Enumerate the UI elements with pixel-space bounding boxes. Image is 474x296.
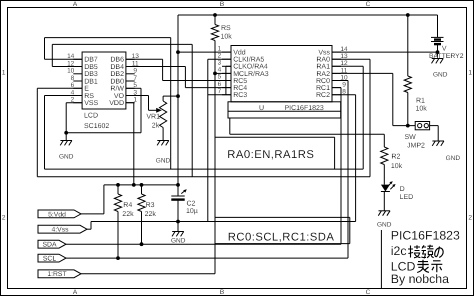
svg-text:RC1: RC1 [316, 85, 330, 92]
wire MCLR row [215, 72, 231, 74]
title i2c setsuzoku no [391, 244, 443, 258]
wire LCD VSS [66, 103, 82, 133]
svg-text:Vss: Vss [318, 50, 330, 57]
wire 5:Vdd riser [81, 185, 104, 214]
wire RA1 loop right [332, 66, 363, 169]
ground battery [432, 59, 448, 79]
junction rail/LCDVDD [132, 183, 136, 187]
svg-text:RA2: RA2 [316, 71, 330, 78]
svg-text:V: V [442, 46, 447, 53]
wire RA4 to RC3 row [208, 66, 231, 94]
ground JMP2 [432, 141, 460, 162]
battery BATTERY2 [429, 15, 464, 60]
svg-text:DB7: DB7 [84, 57, 98, 64]
resistor R3 22k [138, 185, 156, 244]
svg-text:7: 7 [218, 88, 222, 95]
svg-text:DB2: DB2 [110, 71, 124, 78]
svg-text:LED: LED [400, 194, 414, 201]
svg-text:GND: GND [156, 157, 171, 164]
svg-text:10k: 10k [391, 162, 403, 170]
svg-text:Vdd: Vdd [233, 49, 246, 57]
svg-text:2: 2 [218, 52, 222, 59]
svg-text:GND: GND [377, 221, 392, 228]
junction C2/gnd line [176, 220, 180, 224]
svg-text:DB6: DB6 [110, 57, 124, 64]
junction Vdd/R1 [406, 13, 410, 17]
svg-text:VSS: VSS [84, 100, 98, 107]
wire VO to VR1 wiper [126, 96, 162, 113]
title LCD hyouji [391, 259, 443, 273]
svg-text:DB1: DB1 [84, 78, 98, 85]
wire Vdd bottom rail [104, 184, 178, 186]
capacitor C2 10u [171, 185, 198, 222]
svg-text:R3: R3 [146, 202, 155, 209]
resistor R4 22k [114, 185, 134, 258]
connector SCL [38, 254, 66, 262]
wire DB4 to RC4 [126, 67, 231, 88]
wire DB5 left [52, 44, 82, 66]
svg-text:CLKI/RA5: CLKI/RA5 [233, 56, 264, 64]
LCD module SC1602 [67, 52, 139, 130]
svg-text:RC4: RC4 [233, 85, 247, 92]
junction rail/main [176, 183, 180, 187]
svg-text:By nobcha: By nobcha [391, 272, 449, 286]
svg-text:10: 10 [67, 68, 75, 75]
svg-text:CLKO/RA4: CLKO/RA4 [233, 63, 268, 71]
svg-text:GND: GND [59, 153, 74, 160]
junction SCL/R4 [116, 256, 120, 260]
svg-text:SDA: SDA [43, 242, 57, 249]
svg-text:C: C [366, 1, 371, 8]
junction battery/Vss [436, 50, 440, 54]
title By nobcha [391, 272, 449, 286]
svg-text:RC5: RC5 [233, 78, 247, 85]
connector 1:RST [38, 270, 81, 278]
junction rail/R3 [140, 183, 144, 187]
svg-text:C2: C2 [187, 201, 196, 208]
svg-text:4: 4 [218, 67, 222, 74]
title PIC16F1823 [391, 229, 460, 243]
svg-text:1: 1 [2, 70, 6, 77]
wire 4:Vss jog [87, 222, 91, 230]
svg-text:D: D [400, 186, 405, 193]
svg-text:9: 9 [342, 82, 346, 89]
wire Vdd top rail [178, 14, 438, 16]
svg-text:4:Vss: 4:Vss [52, 227, 70, 234]
svg-text:R1: R1 [416, 98, 425, 105]
svg-text:RC3: RC3 [233, 92, 247, 99]
junction Vdd/RS [213, 13, 217, 17]
wire MCLR to 1:RST vertical [214, 73, 216, 273]
svg-text:SW: SW [405, 134, 417, 141]
svg-text:5:Vdd: 5:Vdd [48, 211, 66, 218]
LED D [381, 181, 413, 201]
svg-text:RA0:EN,RA1RS: RA0:EN,RA1RS [227, 149, 314, 161]
svg-text:22k: 22k [145, 210, 157, 218]
jumper SW JMP2 [393, 122, 438, 150]
wire SDA to RC1 [66, 88, 341, 245]
wire LED line [230, 118, 384, 134]
wire DB7 left [45, 38, 83, 60]
wire E to LCD [37, 88, 82, 176]
junction Vdd/pin1 [176, 50, 180, 54]
wire 1:RST to MCLR [81, 273, 215, 275]
svg-text:PIC16F1823: PIC16F1823 [391, 229, 460, 243]
wire DB6 to RC5 [126, 59, 231, 80]
svg-text:C: C [366, 289, 371, 296]
svg-text:VO: VO [114, 93, 125, 100]
wire LCD VDD down [126, 103, 134, 185]
svg-text:8: 8 [71, 75, 75, 82]
svg-text:MCLR/RA3: MCLR/RA3 [233, 70, 269, 78]
svg-text:GND: GND [171, 238, 186, 245]
svg-text:B: B [220, 1, 224, 8]
svg-text:A: A [73, 289, 78, 296]
connector SDA [38, 240, 66, 248]
comment box RC0 [215, 217, 350, 243]
svg-text:DB0: DB0 [110, 78, 124, 85]
wire Vdd vertical rail x=178 [177, 15, 179, 185]
svg-text:10k: 10k [221, 33, 233, 41]
svg-text:6: 6 [218, 81, 222, 88]
svg-text:B: B [220, 289, 224, 296]
resistor RS 10k [211, 15, 232, 73]
svg-text:1: 1 [468, 70, 472, 77]
svg-text:7: 7 [133, 75, 137, 82]
junction VSS/RW [64, 131, 68, 135]
svg-text:R4: R4 [123, 202, 132, 209]
svg-text:DB4: DB4 [110, 64, 124, 71]
wire RA1-RS bottom run [45, 168, 364, 170]
wire RA0 loop right [332, 59, 370, 177]
ground LED [377, 192, 392, 229]
svg-text:U: U [259, 105, 264, 112]
wire PIC Vss to battery [332, 51, 438, 53]
svg-text:SC1602: SC1602 [84, 123, 109, 130]
wire SCL to RC0 [66, 81, 348, 259]
svg-text:PIC16F1823: PIC16F1823 [285, 105, 324, 112]
title block border [380, 230, 382, 289]
junction RS/MCLR [213, 72, 217, 76]
wire LCD R/W to gnd [66, 88, 141, 133]
label RA0:EN,RA1RS [227, 149, 314, 161]
svg-text:3: 3 [218, 60, 222, 67]
svg-text:2: 2 [2, 215, 6, 222]
connector 4:Vss [38, 225, 87, 233]
junction SDA/R3 [140, 242, 144, 246]
ground VR1 [156, 141, 171, 165]
svg-text:R/W: R/W [110, 85, 124, 93]
ground LCD [59, 133, 74, 161]
wire PIC pin1 Vdd [178, 51, 231, 53]
wire DB7 top run [45, 38, 171, 170]
microcontroller U PIC16F1823 [218, 45, 348, 118]
wire RA2 to JMP2 [332, 73, 393, 125]
svg-text:22k: 22k [122, 210, 134, 218]
svg-text:i2c: i2c [391, 244, 407, 258]
svg-text:R2: R2 [391, 153, 400, 160]
potentiometer VR1 2k [146, 96, 178, 140]
svg-text:DB3: DB3 [84, 71, 98, 78]
wire RS to LCD [45, 96, 83, 170]
svg-text:E: E [84, 86, 89, 93]
svg-text:RA1: RA1 [316, 64, 330, 71]
svg-text:A: A [73, 1, 78, 8]
svg-text:2: 2 [468, 215, 472, 222]
svg-text:RC0: RC0 [316, 78, 330, 85]
wire RA0-E bottom run [37, 176, 370, 178]
svg-text:JMP2: JMP2 [407, 143, 425, 150]
label RC0:SCL,RC1:SDA [228, 231, 335, 243]
svg-text:DB5: DB5 [84, 64, 98, 71]
svg-text:GND: GND [446, 155, 461, 162]
svg-text:RC2: RC2 [316, 92, 330, 99]
svg-text:10k: 10k [416, 104, 428, 112]
svg-text:1: 1 [133, 97, 137, 104]
ground C2 [171, 222, 186, 245]
wire DB5 top run [52, 44, 192, 176]
svg-text:RC0:SCL,RC1:SDA: RC0:SCL,RC1:SDA [228, 231, 335, 243]
junction rail/R4 [116, 183, 120, 187]
svg-text:LCD: LCD [84, 113, 98, 120]
svg-text:5: 5 [218, 74, 222, 81]
svg-text:1:RST: 1:RST [47, 271, 66, 278]
comment box RA0 [215, 137, 335, 169]
svg-text:RA0: RA0 [316, 57, 330, 64]
svg-text:SCL: SCL [43, 256, 56, 263]
junction R1/JMP2 [406, 124, 410, 128]
connector 5:Vdd [38, 210, 81, 218]
svg-text:GND: GND [433, 71, 448, 78]
wire RA5 down [208, 59, 231, 221]
junction VR1/Vdd [176, 94, 180, 98]
svg-text:10µ: 10µ [186, 208, 198, 215]
svg-text:VR1: VR1 [146, 114, 160, 121]
svg-text:2k: 2k [152, 121, 160, 129]
resistor R2 10k [381, 134, 403, 184]
svg-text:VDD: VDD [109, 100, 124, 107]
svg-text:RS: RS [221, 25, 231, 32]
svg-text:RS: RS [84, 93, 94, 100]
svg-text:9: 9 [133, 68, 137, 75]
wire RC2 down to gnd line [91, 95, 356, 222]
resistor R1 10k [404, 15, 427, 126]
svg-text:1: 1 [218, 45, 222, 52]
